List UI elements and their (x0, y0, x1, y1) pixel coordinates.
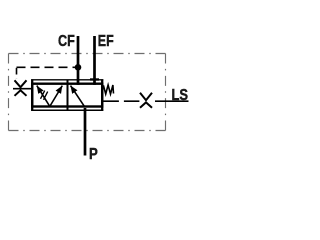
valve body outer rail bottom (proportional) (31, 109, 103, 111)
valve body outer rail top (proportional) (31, 79, 103, 81)
P port line (84, 108, 87, 156)
valve body main box (32, 84, 102, 107)
orifice O2 on LS line (140, 93, 152, 108)
orifice O1 chevrons (15, 80, 27, 96)
left position: arrow to CF (with restriction) (37, 86, 50, 107)
CF port line (77, 36, 80, 85)
restriction slashes on CF arrow (41, 91, 48, 100)
svg-text:LS: LS (172, 87, 189, 104)
wire: dashed pilot line vertical down to orifice (16, 68, 18, 79)
enclosure dash-dot boundary left (8, 54, 10, 131)
EF port line (93, 36, 96, 85)
right position: arrow P to CF (71, 86, 86, 108)
orifice O1 line (left pilot) (13, 88, 33, 90)
node: pilot junction dot on CF line (75, 64, 82, 71)
svg-text:CF: CF (58, 33, 75, 50)
svg-text:EF: EF (98, 33, 114, 50)
spring (right end) (103, 85, 113, 94)
wire: dashed LS pilot line (103, 100, 139, 102)
blocked EF port tick (90, 78, 99, 80)
valve left edge full (31, 79, 33, 111)
enclosure dash-dot boundary top (9, 53, 166, 55)
enclosure dash-dot boundary right (165, 54, 167, 131)
wire: LS line out (155, 100, 189, 102)
enclosure dash-dot boundary bottom (9, 130, 166, 132)
left position: arrow to EF (50, 86, 63, 107)
valve position divider (67, 80, 69, 110)
svg-text:P: P (89, 146, 98, 163)
wire: dashed pilot line horizontal from CF junction (17, 66, 78, 68)
valve right edge full (101, 79, 103, 111)
